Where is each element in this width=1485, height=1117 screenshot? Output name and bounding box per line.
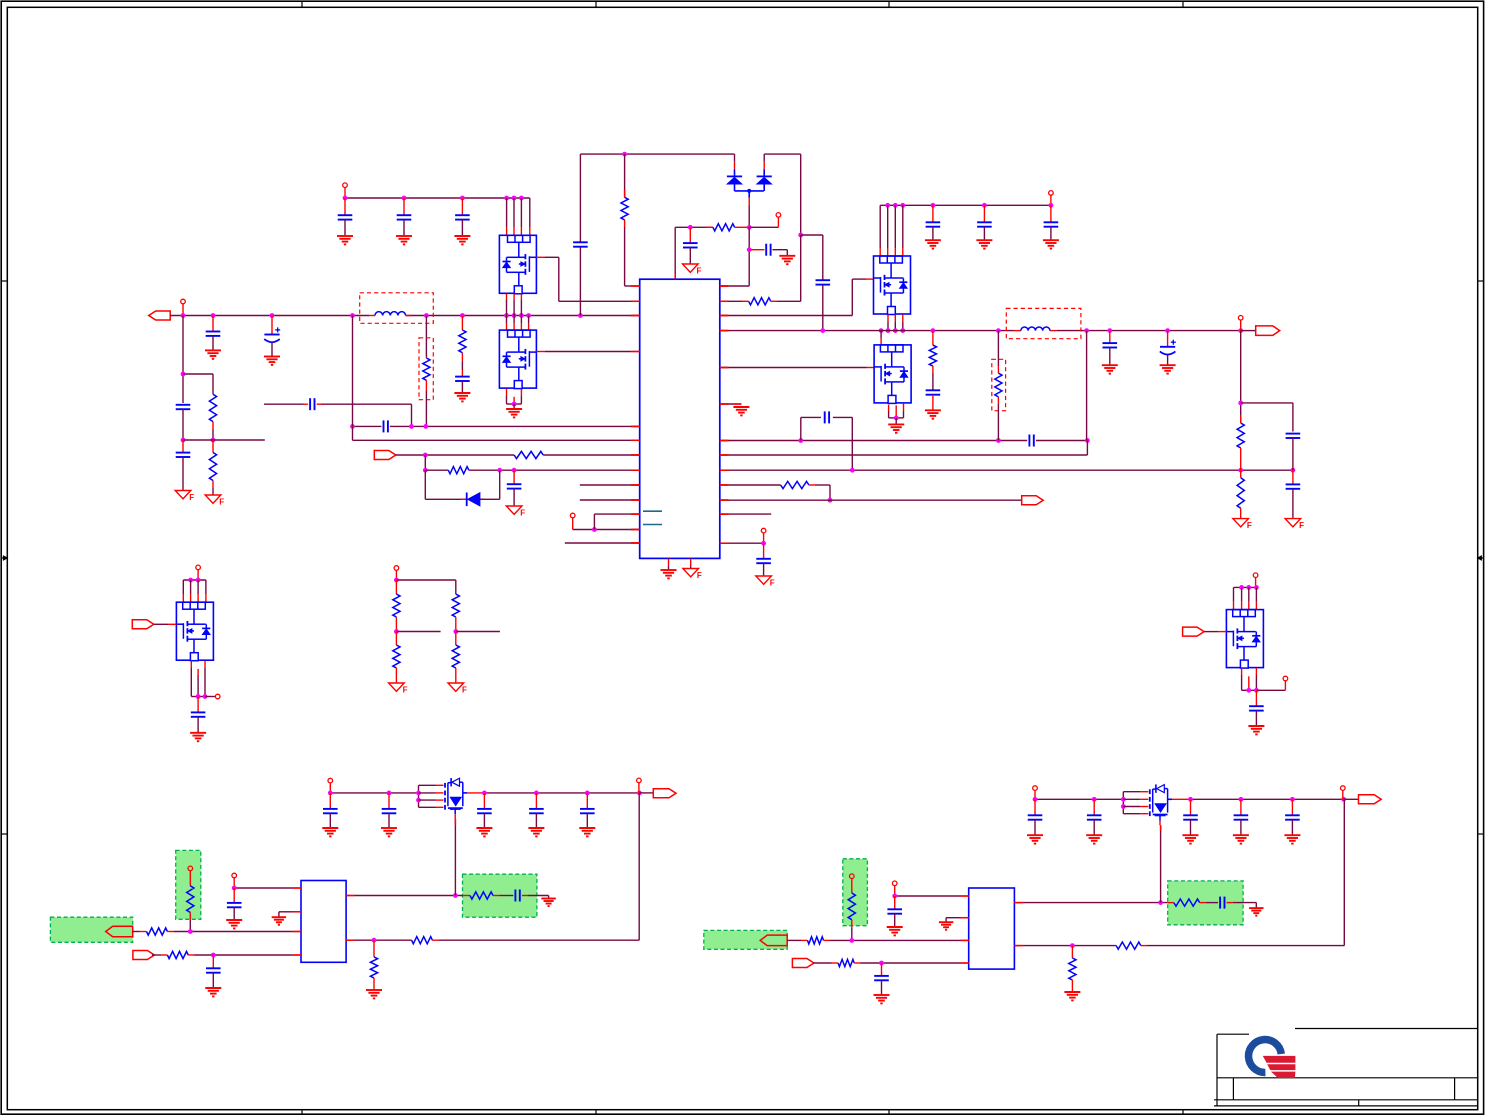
wire U3 en [892,894,960,899]
IC U1 pins [631,274,729,566]
ground C33 [579,828,595,836]
pin P4 [749,213,781,228]
wire VIN bus [170,313,640,318]
ground C29 [322,828,338,836]
ground C27 [190,733,206,741]
wire vref [720,541,766,546]
wire stub p543 [565,542,640,544]
ground C31 [476,828,492,836]
resistor R30 [1069,946,1076,992]
wire LDO-L in bus [328,791,419,796]
capacitor C6 [176,405,191,440]
svg-text:F: F [1247,521,1252,530]
resistor R11 [929,331,936,391]
port VLDO-R [1359,795,1382,804]
highlight box left-RC [463,874,537,917]
svg-text:F: F [462,686,467,695]
capacitor C23 [1103,331,1118,365]
IC U3 [969,888,1015,969]
capacitor C9 [455,377,470,393]
ground C18 F [756,576,775,588]
wire VOUT bus [720,328,1243,333]
port GATE5 [132,620,154,629]
pin P18 [1341,786,1346,800]
transistor Q7 pass [416,778,467,819]
ground Q2 [506,404,522,417]
ground C3 [454,236,470,244]
capacitor C3 [455,198,470,236]
IC U2 pins [293,888,355,955]
ground C43 [874,995,890,1003]
capacitor C31 [477,793,492,828]
resistor R18 [452,632,459,683]
port GATE6 [1183,627,1205,636]
capacitor C22 [926,390,941,410]
capacitor C13 [683,227,698,263]
highlight box right-resistor [843,859,868,926]
ground C11 F [506,506,525,518]
ground C1 [337,236,353,244]
IC U2 [301,881,346,963]
resistor R27 [813,959,960,966]
ground C5 [264,357,280,365]
resistor R24 [370,940,377,990]
ground R30 [1064,992,1080,1000]
ground R24 [366,990,382,998]
svg-text:F: F [1299,521,1304,530]
highlight box left-resistor [176,850,201,919]
svg-text:F: F [697,571,702,580]
IC U1 [640,279,720,558]
pin P1 [343,183,348,198]
svg-text:F: F [770,579,775,588]
capacitor C11 [507,470,522,505]
pin P13 [328,778,333,793]
ground C28 [1248,726,1264,734]
wire Q2 gate [536,351,631,353]
capacitor C1 [338,198,353,236]
ground C14 [779,256,795,264]
wire Q6 drain bus [1234,585,1259,610]
wire VIN5V right rail [880,203,1053,208]
ground Q4 [888,418,904,433]
wire Q3 drain feeds [880,205,903,256]
resistor R28 [1168,899,1206,906]
resistor R7 [621,154,640,286]
ground C36 [541,899,555,907]
capacitor C26 [1286,470,1301,518]
wire diode branch [425,470,499,499]
port ADJ-R [760,935,787,946]
ground C35 [205,988,221,996]
wire boot top [580,152,734,157]
wire EN [396,453,640,458]
svg-text:F: F [403,686,408,695]
ground C37 [1027,835,1043,843]
diode D1 [467,493,480,507]
wire U3 out [1023,825,1168,905]
ground R17 F [389,683,408,695]
wire node C [423,455,640,473]
wire fb divider top [1238,331,1293,432]
pin P2 [181,299,186,315]
pin P7 [1238,316,1243,331]
diode D2 [727,154,742,191]
wire gate Q3 [720,279,874,315]
pin P9 [215,694,220,699]
capacitor C27 [191,697,206,733]
capacitor C21 [1044,205,1059,240]
capacitor C10 [384,420,388,432]
capacitor C40 [1234,799,1249,835]
transistor Q8 pass [1121,784,1172,825]
capacitor C29 [323,793,338,828]
capacitor C32 [529,793,544,828]
capacitor C35 [206,955,221,988]
wire Q5 gate [154,623,177,625]
ground C32 [528,828,544,836]
wire L1 right [425,316,427,357]
ground U3 p918 [939,918,961,930]
wire SW mid bus [504,294,531,330]
capacitor C24 polarized [1160,331,1176,365]
wire VIN5V rail [343,196,530,201]
wire stub p485 [580,484,640,486]
resistor R6 [448,467,469,474]
wire stub r514 [720,513,771,515]
wire node B [181,438,265,443]
current probe box R3 [419,338,433,400]
capacitor C5 polarized [264,316,280,357]
port ADJ-L [106,926,133,937]
IC pin stubs overlay [293,275,1023,964]
resistor R26 [787,937,960,944]
wire pgood [720,499,1022,501]
resistor R25 [848,893,855,940]
port VOUT [1241,326,1280,336]
ground R18 F [448,683,467,695]
port EN [374,451,396,460]
wire boot vert [579,154,581,315]
svg-text:F: F [520,509,525,518]
wire to IC pin286 [720,227,752,286]
port EN-L [133,951,155,960]
wire U2 fb [354,793,639,943]
ground C20 [976,240,992,248]
highlight box right-RC [1168,881,1243,925]
inductor L1 [369,312,411,316]
wire Q1 drain feeds [504,196,530,236]
resistor R13 [1237,415,1244,470]
wire Q6 source [1242,668,1286,693]
wire tap B [453,629,500,634]
wire diode node [735,190,764,228]
current probe box L2 [1006,308,1081,338]
resistor R2 [209,440,216,495]
capacitor C18 [756,543,771,575]
resistor R8 [713,224,735,231]
ground C41 [1284,835,1300,843]
wire tap A [394,629,441,634]
inductor L2 [1014,327,1050,331]
wire comp bus [720,468,1296,473]
ground C38 [1086,835,1102,843]
capacitor C8 [310,398,314,410]
wire divider top [394,578,456,595]
capacitor C12 [573,242,588,246]
resistor R3 [423,357,430,427]
capacitor C2 [397,198,412,236]
transistor Q3 [874,256,911,315]
ground R2 F [205,495,224,507]
transistor Q6 [1226,610,1263,669]
wire LDO-R out bus [1172,797,1359,802]
capacitor C42 [887,896,902,927]
ground U2 p912 [272,912,293,925]
title block [1214,1029,1478,1106]
transistor Q5 [176,602,213,661]
resistor R22 [463,892,500,899]
ground C2 [396,236,412,244]
resistor R16 [452,594,459,631]
wire node A [181,316,213,404]
svg-text:F: F [219,498,224,507]
resistor R1 [209,394,216,440]
resistor R5 [514,451,543,458]
capacitor C38 [1087,799,1102,835]
resistor R20 [133,928,293,935]
transistor Q4 [874,345,911,404]
capacitor C7 [176,440,191,490]
resistor R29 [1116,942,1141,949]
wire ss bus [720,441,1088,456]
capacitor C37 [1028,799,1043,835]
capacitor C34 [227,888,242,920]
port VLDO-L [653,789,676,798]
wire P3 net [573,514,640,532]
pin P17 [1033,786,1038,800]
highlight box right-port [704,930,787,949]
ground C34 [226,920,242,928]
wire vdd net [675,225,751,279]
ground C9 [454,393,470,401]
pin P5 [761,528,766,543]
ground R14 F [1233,519,1252,531]
pin P12 [394,566,399,580]
ground U1 left [661,566,677,578]
transistor Q2 [499,330,536,389]
diode D3 [757,154,801,191]
wire gate Q4 [720,367,874,369]
capacitor C44 [1206,897,1256,909]
wire Q2 source [507,389,522,407]
wire U3 fb [1023,799,1345,948]
wire LDO-R in bus [1033,797,1124,802]
capacitor C19 [926,205,941,240]
wire Q4 source [889,403,904,420]
wire FB2 bus [350,424,640,429]
pin P8 [196,565,201,580]
wire boot right [798,154,823,331]
ground C22 [925,410,941,418]
ground C7 F [175,491,194,503]
wire fb loop [801,417,853,470]
wire Q3 source [879,315,906,345]
pin P19 [892,881,897,896]
svg-text:F: F [189,493,194,502]
current probe box L1 [360,293,434,324]
resistor R23 [412,937,433,944]
ground C44 [1249,908,1263,916]
ground C30 [381,828,397,836]
port EN-R [792,959,814,968]
wire SW right bus [720,438,1090,443]
capacitor C4 [206,316,221,351]
pin P6 [1049,191,1054,206]
ground C39 [1183,835,1199,843]
resistor R4 [459,316,466,377]
logo [1249,1040,1295,1078]
highlight box left-port [50,917,132,942]
capacitor C17 [825,411,829,423]
capacitor C20 [977,205,992,240]
pin P14 [637,778,642,793]
capacitor C16 [1029,435,1033,447]
wire VOUT sense [1086,331,1088,441]
wire FB1 [264,404,412,426]
pin P10 [1253,573,1258,588]
capacitor C36 [500,890,549,902]
wire Q5 drain bus [183,578,206,603]
pin P3 [570,513,575,529]
ground C21 [1043,240,1059,248]
wire stub p500 [580,499,640,501]
ground C24 [1160,365,1176,373]
ground U1 right F [683,566,702,580]
resistor R10 [720,481,833,502]
capacitor C28 [1249,690,1264,725]
wire Q1 gate [536,257,631,301]
wire LDO-L out bus [467,791,653,796]
pin P20 [850,874,855,893]
ground C13 F [683,264,702,276]
pin P16 [188,866,193,886]
capacitor C25 [1286,434,1301,471]
wire U2 en [232,886,293,891]
transistor Q1 [499,235,536,293]
resistor R14 [1237,470,1244,518]
capacitor C33 [580,793,595,828]
capacitor C39 [1183,799,1198,835]
resistor R17 [393,632,400,683]
wire U2 out [354,819,462,898]
ground C42 [887,927,903,935]
resistor R19 [187,886,194,932]
ground C19 [925,240,941,248]
wire SW bus [353,316,640,441]
ground C23 [1102,365,1118,373]
pin P15 [232,873,237,888]
capacitor C30 [382,793,397,828]
resistor R9 [720,235,801,305]
wire Q5 source [191,661,215,699]
capacitor C14 [749,244,787,256]
ground C4 [205,350,221,358]
ground C40 [1233,835,1249,843]
ground C26 F [1285,519,1304,531]
capacitor C43 [874,963,889,995]
wire Q6 gate [1204,631,1226,633]
port PGOOD [1022,496,1043,505]
svg-text:F: F [697,267,702,276]
current probe box R12 [992,359,1006,410]
resistor R12 [995,331,1002,441]
pin P11 [1283,676,1288,681]
ground U1 p404 [720,404,750,415]
IC U3 pins [961,896,1023,963]
capacitor C41 [1285,799,1300,835]
capacitor C15 [816,280,831,284]
resistor R21 [152,951,293,958]
port VIN left [149,311,171,320]
resistor R15 [393,580,400,632]
